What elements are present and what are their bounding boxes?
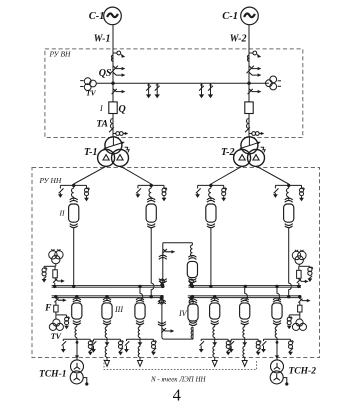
svg-text:N - ячеек ЛЭП НН: N - ячеек ЛЭП НН	[150, 375, 207, 383]
svg-text:III: III	[114, 305, 123, 314]
svg-text:QS: QS	[99, 68, 112, 79]
svg-text:ТСН-2: ТСН-2	[289, 367, 317, 377]
svg-text:C-1: C-1	[222, 11, 238, 22]
svg-text:TV: TV	[86, 89, 97, 98]
svg-text:4: 4	[173, 386, 181, 401]
svg-text:W-1: W-1	[94, 34, 111, 45]
svg-text:РУ ВН: РУ ВН	[49, 50, 72, 59]
svg-text:I: I	[99, 104, 103, 113]
svg-text:Q: Q	[119, 104, 126, 115]
svg-text:ТСН-1: ТСН-1	[39, 369, 66, 379]
svg-text:T-2: T-2	[221, 147, 235, 158]
svg-text:II: II	[59, 209, 65, 218]
svg-text:IV: IV	[178, 309, 188, 318]
svg-text:РУ НН: РУ НН	[39, 176, 62, 185]
svg-text:C-1: C-1	[89, 11, 105, 22]
svg-text:TA: TA	[96, 120, 108, 130]
svg-text:TV: TV	[51, 332, 62, 341]
svg-text:W-2: W-2	[230, 34, 247, 45]
svg-text:F: F	[44, 304, 52, 314]
svg-text:T-1: T-1	[84, 147, 98, 158]
